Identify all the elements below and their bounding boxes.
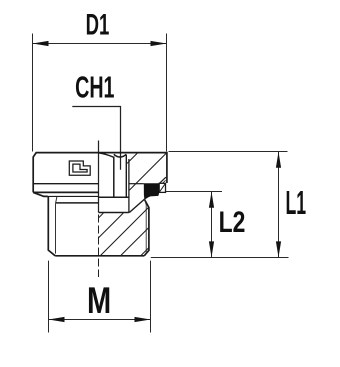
svg-text:L2: L2	[219, 205, 246, 239]
svg-text:M: M	[87, 281, 111, 322]
svg-text:CH1: CH1	[75, 71, 114, 104]
svg-text:D1: D1	[86, 9, 110, 41]
svg-text:L1: L1	[286, 184, 307, 222]
